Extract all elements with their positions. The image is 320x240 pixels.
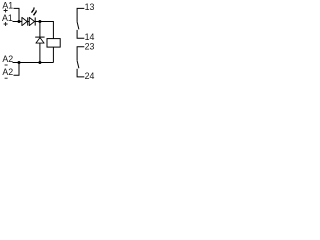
wire bottom A2 rail [13, 62, 54, 64]
relay coil K1 [47, 39, 60, 48]
contact 13-14 terminal stub 14 [77, 30, 84, 38]
svg-text:A2: A2 [2, 67, 13, 77]
contact 13-14 terminal stub 13 [77, 8, 84, 22]
node junction freewheel branch (top) [38, 20, 41, 23]
LED light arrows [32, 8, 38, 16]
svg-text:A2: A2 [2, 54, 13, 64]
node junction A1 terminals [18, 20, 21, 23]
contact 23-24 blade [77, 61, 79, 68]
polarity - (second A2) [5, 77, 8, 79]
wire to second A2 terminal (bracket) [14, 63, 20, 76]
contact 23-24 terminal stub 23 [77, 47, 84, 61]
svg-text:A1: A1 [2, 13, 13, 23]
diode D1 (series) [22, 17, 28, 25]
wire main top A1 rail [13, 22, 54, 39]
svg-text:23: 23 [85, 41, 95, 51]
contact 13-14 blade [77, 22, 79, 30]
polarity + (top A1) [4, 9, 8, 13]
node junction freewheel branch (bottom) [38, 61, 41, 64]
polarity + (second A1) [4, 22, 8, 26]
node junction A2 terminals [18, 61, 21, 64]
svg-text:13: 13 [85, 2, 95, 12]
contact 23-24 terminal stub 24 [77, 69, 84, 77]
wire freewheel branch vertical [39, 22, 41, 63]
svg-text:24: 24 [85, 71, 95, 81]
freewheeling diode D2 (cathode bar) [35, 36, 44, 38]
svg-text:A1: A1 [2, 0, 13, 10]
freewheeling diode D2 (triangle) [36, 38, 44, 44]
LED indicator [29, 17, 35, 25]
wire from top A1 terminal (bracket) [14, 8, 20, 21]
wire coil bottom lead [52, 47, 54, 62]
polarity - (first A2) [5, 64, 8, 66]
